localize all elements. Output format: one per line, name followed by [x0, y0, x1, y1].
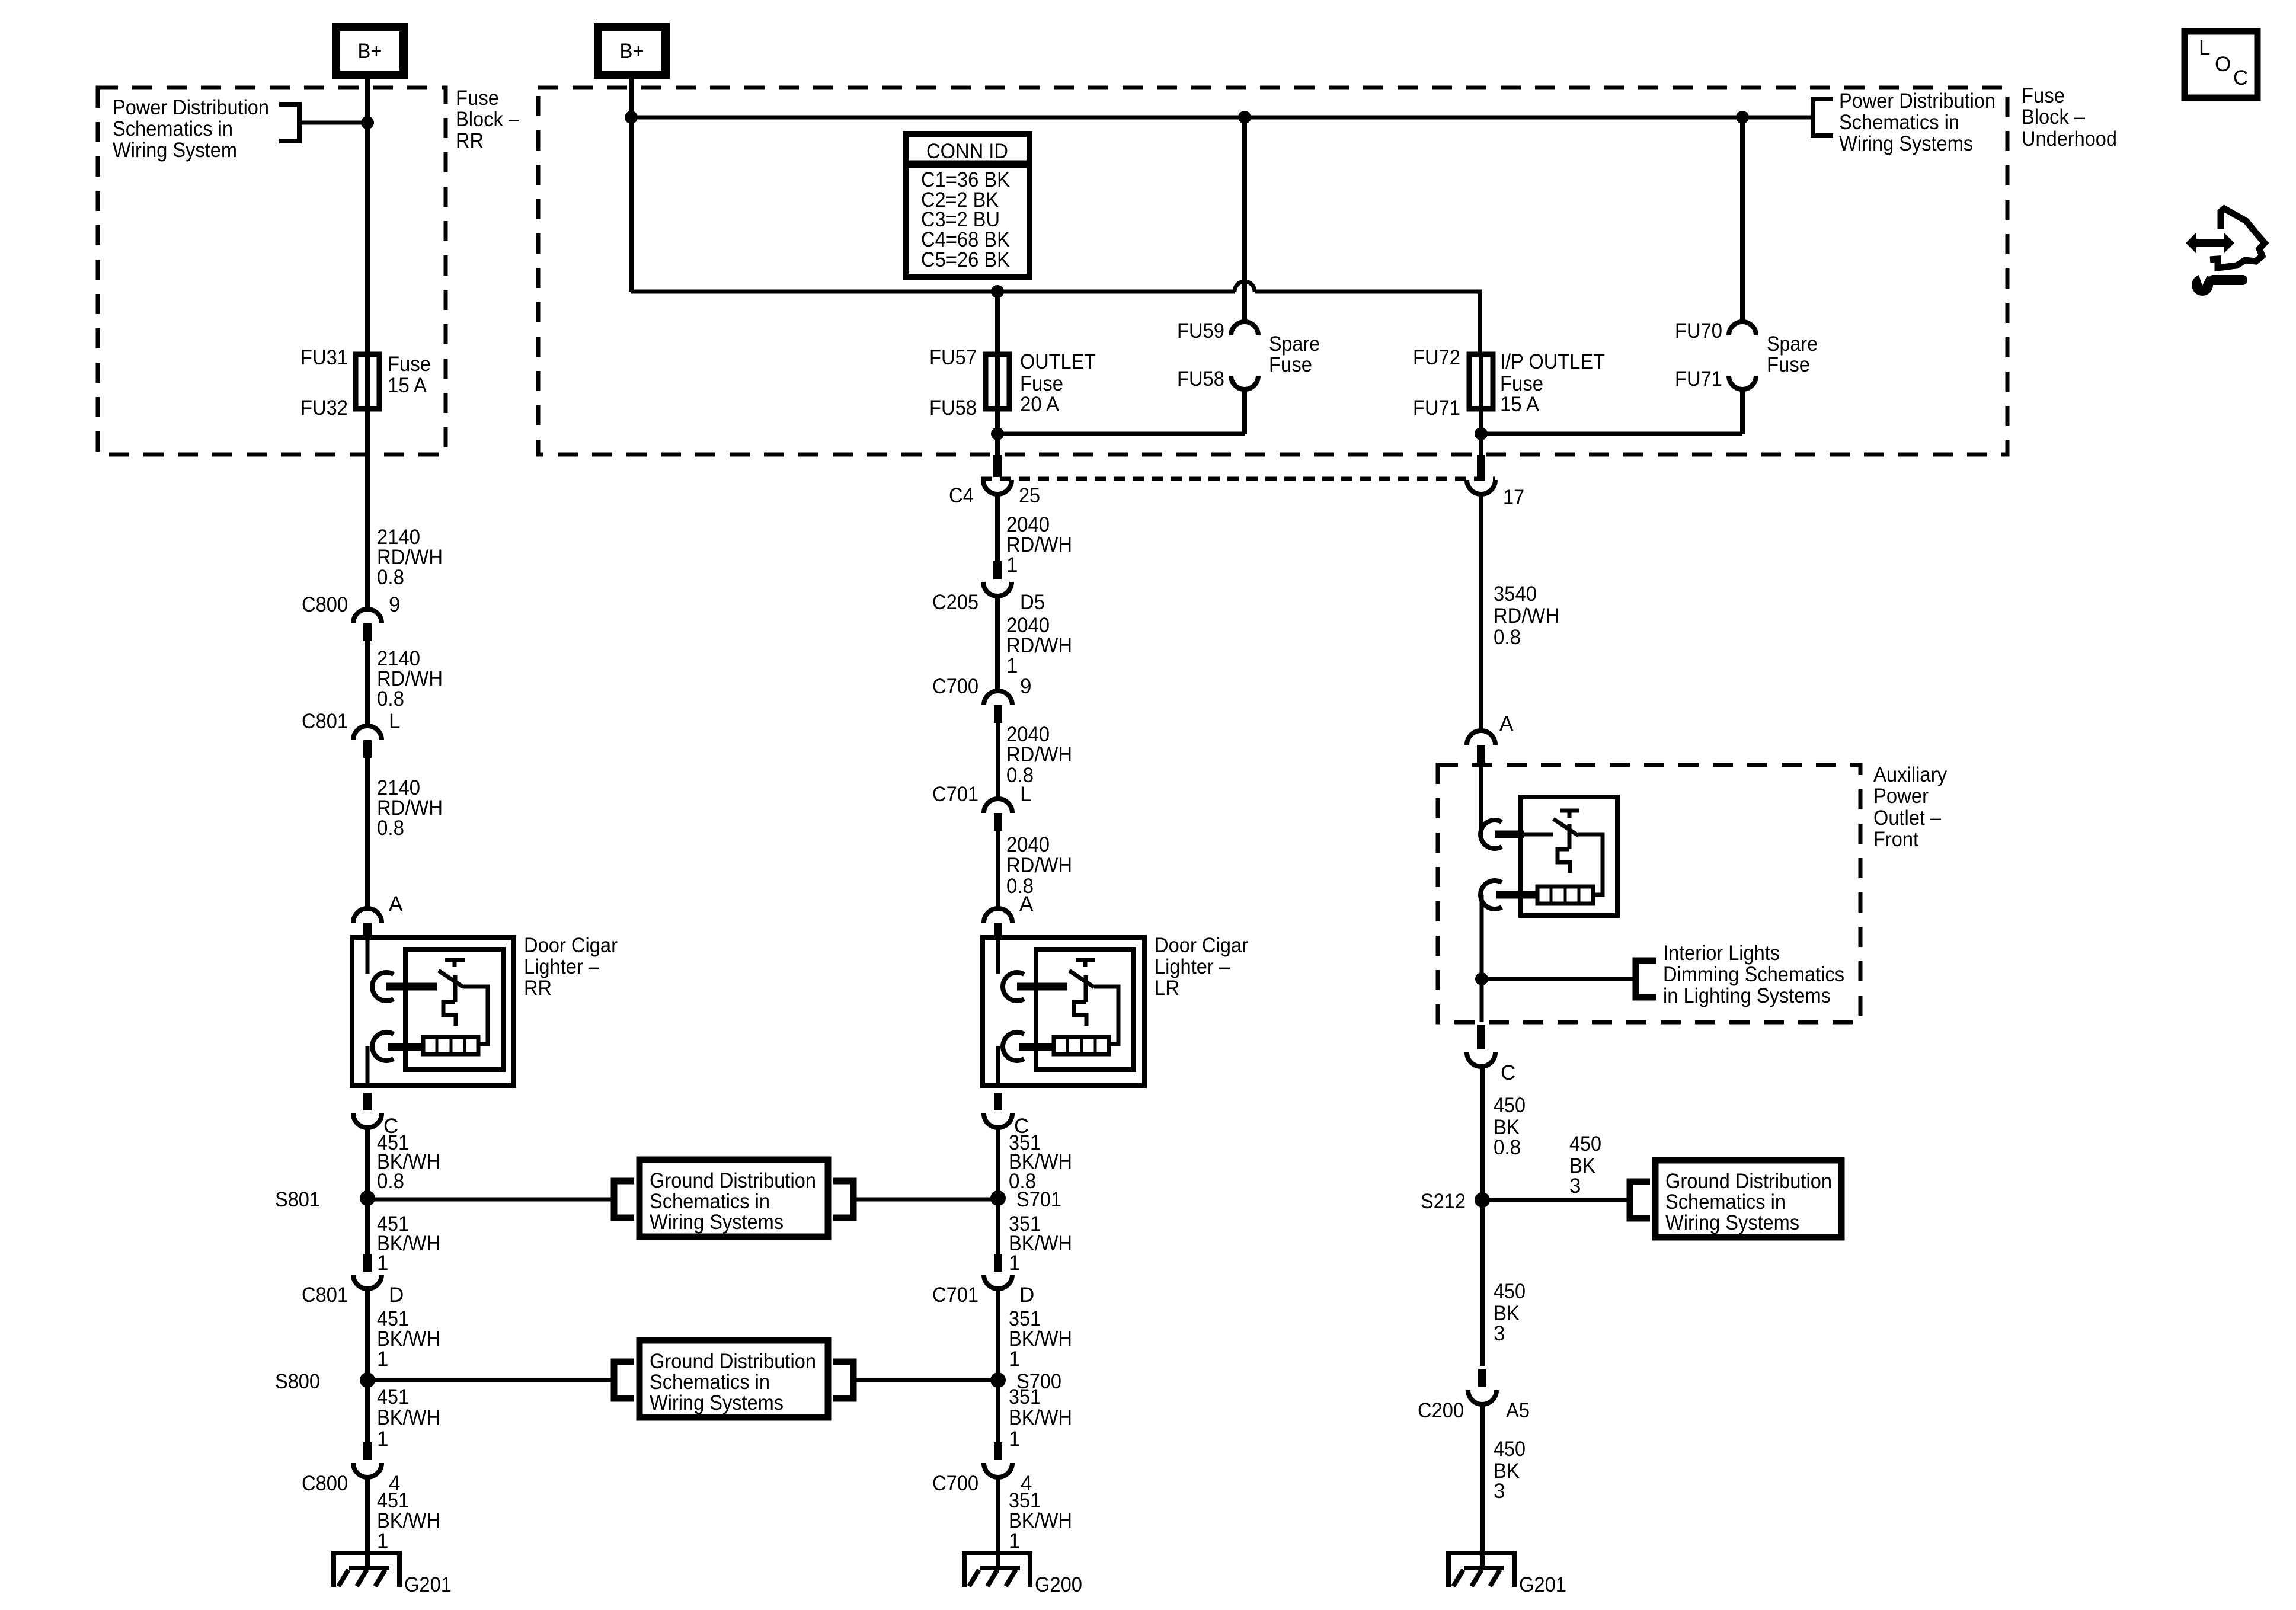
ground G200: [964, 1535, 1082, 1596]
ground G201 (left): [334, 1535, 452, 1596]
svg-text:3: 3: [1569, 1174, 1581, 1198]
wire label 351 BK/WH 1 (LR-1): [1009, 1212, 1072, 1275]
svg-text:9: 9: [1020, 675, 1031, 698]
svg-text:Wiring Systems: Wiring Systems: [1839, 132, 1973, 155]
fuse FU31/FU32 15A: [300, 346, 431, 420]
wire C701 D to S700: [996, 1289, 1000, 1380]
connector C701 pin D: [932, 1254, 1034, 1307]
wire S801 to C801 D: [365, 1198, 370, 1254]
svg-text:FU71: FU71: [1413, 396, 1460, 420]
svg-text:BK/WH: BK/WH: [377, 1406, 440, 1429]
junction node B+ feed RR: [361, 116, 374, 129]
svg-text:C801: C801: [302, 710, 348, 733]
wire label 351 BK/WH 0.8 (LR): [1009, 1131, 1072, 1193]
svg-text:Spare: Spare: [1767, 332, 1818, 356]
label Door Cigar Lighter - RR: [524, 934, 618, 1000]
svg-text:RD/WH: RD/WH: [1494, 604, 1559, 628]
splice S701: [990, 1188, 1061, 1211]
wire C to S701: [996, 1128, 1000, 1198]
svg-text:RR: RR: [524, 977, 552, 1000]
svg-text:BK/WH: BK/WH: [1009, 1406, 1072, 1429]
svg-text:L: L: [2199, 36, 2210, 59]
svg-text:Fuse: Fuse: [388, 353, 431, 376]
wire label 3540 RD/WH 0.8: [1494, 582, 1559, 649]
wire label 2040 RD/WH 0.8 (4): [1006, 833, 1072, 898]
wire S800 to ground box 2: [367, 1378, 614, 1382]
wire label 2040 RD/WH 1 (1): [1006, 513, 1072, 577]
svg-text:Ground Distribution: Ground Distribution: [1665, 1170, 1832, 1193]
wire bus to spare fuse FU59: [1242, 117, 1247, 323]
svg-text:C5=26 BK: C5=26 BK: [921, 248, 1010, 271]
svg-text:C: C: [1501, 1061, 1515, 1084]
svg-text:OUTLET: OUTLET: [1020, 350, 1096, 373]
wire C800 4 to ground G201: [365, 1477, 370, 1569]
svg-text:3540: 3540: [1494, 582, 1537, 606]
svg-text:Fuse: Fuse: [1500, 372, 1543, 395]
wire S212 to C200: [1480, 1200, 1485, 1366]
splice S212: [1421, 1190, 1490, 1213]
svg-text:3: 3: [1494, 1480, 1505, 1503]
junction node bus at FU70: [1736, 111, 1749, 124]
wire FU32 to C800: [365, 409, 370, 609]
svg-text:17: 17: [1503, 486, 1524, 509]
svg-text:L: L: [1020, 783, 1031, 806]
svg-text:Power Distribution: Power Distribution: [1839, 89, 1996, 113]
svg-text:Interior Lights: Interior Lights: [1663, 942, 1780, 965]
off-page ref bracket Power Distribution Underhood: [1813, 99, 1833, 136]
svg-text:1: 1: [1009, 1529, 1020, 1553]
svg-text:1: 1: [1006, 553, 1018, 577]
svg-text:B+: B+: [358, 40, 382, 63]
wire label 450 BK 3 (3): [1494, 1438, 1526, 1503]
wire label 450 BK 3 (branch): [1569, 1132, 1601, 1198]
spare fuse FU70/FU71: [1675, 319, 1818, 391]
wire S800 to C800 4: [365, 1380, 370, 1442]
svg-text:20 A: 20 A: [1020, 393, 1060, 416]
label Interior Lights Dimming Schematics in Lighting Systems: [1663, 942, 1844, 1007]
Ground Distribution box 2: [639, 1340, 828, 1417]
bracket left of ground box 2: [614, 1362, 634, 1398]
junction node above FU57: [991, 285, 1004, 298]
connector A door cigar lighter RR: [353, 892, 403, 937]
connector C door cigar lighter LR: [984, 1093, 1029, 1138]
svg-text:9: 9: [389, 593, 400, 616]
wire label 451 BK/WH 1 (RR-1): [377, 1212, 440, 1275]
svg-text:FU58: FU58: [1177, 367, 1224, 391]
connector C door cigar lighter RR: [353, 1093, 398, 1138]
svg-text:I/P OUTLET: I/P OUTLET: [1500, 350, 1605, 373]
svg-text:450: 450: [1569, 1132, 1601, 1156]
wire bus corner to FU72: [1478, 292, 1482, 354]
wire ground box 2 to S700: [853, 1378, 998, 1382]
bracket right of ground box 1: [833, 1181, 853, 1218]
svg-text:0.8: 0.8: [377, 817, 404, 840]
connector A aux power outlet: [1467, 712, 1514, 763]
label Auxiliary Power Outlet - Front: [1873, 763, 1947, 851]
svg-text:C: C: [2233, 66, 2248, 89]
wire C200 to ground G201 right: [1480, 1404, 1485, 1569]
svg-text:Fuse: Fuse: [2022, 84, 2065, 107]
connector C4 pin 25: [949, 455, 1040, 507]
svg-text:450: 450: [1494, 1438, 1526, 1461]
wire S701 to C701 D: [996, 1198, 1000, 1254]
svg-text:FU72: FU72: [1413, 346, 1460, 369]
wire 17 to A connector: [1479, 494, 1483, 731]
connector C700 pin 4: [932, 1442, 1032, 1495]
svg-text:D: D: [389, 1283, 404, 1307]
wire label 451 BK/WH 1 (RR-4): [377, 1489, 440, 1553]
wire label 2140 RD/WH 0.8 (1): [377, 526, 443, 589]
wire FU72 node to 17 connector: [1479, 434, 1483, 456]
connector C4 pin 17: [1467, 455, 1524, 509]
svg-text:Fuse: Fuse: [1767, 353, 1810, 376]
svg-text:351: 351: [1009, 1385, 1041, 1409]
svg-text:1: 1: [1009, 1251, 1020, 1275]
svg-text:2040: 2040: [1006, 833, 1050, 856]
svg-text:Ground Distribution: Ground Distribution: [650, 1350, 816, 1373]
svg-text:C200: C200: [1418, 1399, 1464, 1422]
svg-text:C205: C205: [932, 591, 978, 614]
Fuse Block - RR dashed box: [98, 88, 446, 454]
svg-text:1: 1: [1009, 1347, 1020, 1371]
wire label 2140 RD/WH 0.8 (3): [377, 776, 443, 840]
wire C to S801: [365, 1128, 370, 1198]
junction node below FU57: [991, 427, 1004, 440]
wire C801 to lighter RR: [365, 758, 370, 908]
svg-text:C4: C4: [949, 484, 974, 507]
B+ terminal (Fuse Block - Underhood): [598, 27, 666, 75]
svg-text:A: A: [1499, 712, 1514, 735]
wire FU71 to lower node: [1479, 409, 1483, 434]
svg-text:G200: G200: [1035, 1573, 1082, 1596]
svg-text:O: O: [2215, 53, 2231, 76]
wire C800 to C801: [365, 641, 370, 726]
wire FU58 to lower node: [995, 409, 1000, 434]
svg-text:C800: C800: [302, 593, 348, 616]
svg-text:Ground Distribution: Ground Distribution: [650, 1169, 816, 1192]
svg-text:Schematics in: Schematics in: [650, 1371, 770, 1394]
Fuse Block - Underhood dashed box: [538, 88, 2007, 454]
svg-text:Schematics in: Schematics in: [650, 1190, 770, 1213]
svg-text:Door Cigar: Door Cigar: [524, 934, 618, 957]
Auxiliary Power Outlet dashed box: [1438, 765, 1860, 1022]
svg-text:1: 1: [377, 1347, 388, 1371]
svg-text:D: D: [1019, 1283, 1034, 1307]
wire FU71 spare return: [1481, 389, 1742, 434]
svg-text:0.8: 0.8: [377, 1170, 404, 1193]
wire ground box 1 to S701: [853, 1198, 998, 1202]
bracket left of ground box 3: [1630, 1182, 1650, 1218]
wire C700 to C701: [996, 723, 1000, 799]
wire node to FU57: [995, 292, 1000, 354]
connector C701 pin L: [932, 783, 1031, 831]
svg-text:Block –: Block –: [456, 108, 519, 131]
svg-text:FU31: FU31: [300, 346, 348, 369]
svg-text:Auxiliary: Auxiliary: [1873, 763, 1947, 786]
svg-text:1: 1: [1009, 1427, 1020, 1451]
wire aux outlet to C connector: [1480, 895, 1484, 1022]
svg-text:LR: LR: [1155, 977, 1179, 1000]
svg-text:S701: S701: [1016, 1188, 1061, 1211]
svg-text:C701: C701: [932, 1283, 978, 1307]
svg-text:FU59: FU59: [1177, 319, 1224, 343]
svg-text:451: 451: [377, 1385, 409, 1409]
wire A to aux outlet: [1479, 763, 1483, 836]
wire B+ underhood down: [629, 75, 634, 292]
svg-text:A: A: [1019, 892, 1034, 916]
connector C801 pin D: [302, 1254, 404, 1307]
connector C200 pin A5: [1418, 1369, 1530, 1422]
wire C205 to C700: [995, 596, 1000, 691]
junction node bus at FU59: [1238, 111, 1251, 124]
svg-text:in Lighting Systems: in Lighting Systems: [1663, 984, 1831, 1007]
svg-text:FU57: FU57: [929, 346, 977, 369]
connector C800 pin 4: [302, 1442, 400, 1495]
connector C700 pin 9: [932, 675, 1031, 723]
Door Cigar Lighter - RR component: [352, 937, 514, 1086]
svg-text:Outlet –: Outlet –: [1873, 806, 1941, 830]
svg-text:Wiring System: Wiring System: [113, 139, 237, 162]
svg-text:RD/WH: RD/WH: [1006, 854, 1072, 877]
svg-text:C700: C700: [932, 1472, 978, 1495]
svg-text:S800: S800: [275, 1370, 320, 1393]
wire label 351 BK/WH 1 (LR-3): [1009, 1385, 1072, 1451]
svg-text:A5: A5: [1506, 1399, 1530, 1422]
wire S801 to ground box 1: [367, 1198, 614, 1202]
svg-text:0.8: 0.8: [377, 687, 404, 710]
svg-text:0.8: 0.8: [377, 566, 404, 589]
svg-text:Wiring Systems: Wiring Systems: [650, 1391, 784, 1414]
wire label 2040 RD/WH 1 (2): [1006, 614, 1072, 677]
B+ terminal (Fuse Block - RR): [336, 27, 404, 75]
splice S800: [275, 1370, 375, 1393]
svg-text:Lighter –: Lighter –: [524, 955, 599, 978]
connector C800 pin 9: [302, 593, 400, 641]
wire C701 to lighter LR: [996, 831, 1000, 908]
svg-text:0.8: 0.8: [1494, 1136, 1521, 1159]
svg-text:FU32: FU32: [300, 396, 348, 420]
svg-text:Power: Power: [1873, 785, 1929, 808]
svg-text:Lighter –: Lighter –: [1155, 955, 1230, 978]
splice S801: [275, 1188, 375, 1211]
svg-text:Underhood: Underhood: [2022, 127, 2117, 151]
svg-text:Fuse: Fuse: [1269, 353, 1312, 376]
wire label 450 BK 0.8: [1494, 1094, 1526, 1159]
svg-text:L: L: [389, 710, 400, 733]
svg-text:G201: G201: [404, 1573, 452, 1596]
wire C700 4 to ground G200: [996, 1477, 1000, 1569]
junction node bus top: [625, 111, 638, 124]
svg-text:Wiring Systems: Wiring Systems: [650, 1211, 784, 1234]
wire label 451 BK/WH 1 (RR-3): [377, 1385, 440, 1451]
svg-text:Schematics in: Schematics in: [1665, 1190, 1786, 1214]
wire C to S212: [1480, 1067, 1485, 1200]
component locator icon: [2186, 209, 2265, 296]
svg-text:FU71: FU71: [1675, 367, 1722, 391]
svg-text:1: 1: [377, 1251, 388, 1275]
svg-text:Fuse: Fuse: [456, 87, 499, 110]
svg-text:C701: C701: [932, 783, 978, 806]
wire label 351 BK/WH 1 (LR-2): [1009, 1307, 1072, 1371]
connector C801 pin L: [302, 710, 400, 758]
svg-text:Schematics in: Schematics in: [1839, 111, 1959, 134]
svg-text:G201: G201: [1519, 1573, 1566, 1596]
svg-text:Schematics in: Schematics in: [113, 117, 233, 140]
svg-text:Dimming Schematics: Dimming Schematics: [1663, 963, 1844, 986]
svg-text:15 A: 15 A: [1500, 393, 1540, 416]
off-page ref bracket Interior Lights: [1636, 961, 1656, 997]
label Power Distribution Schematics in Wiring System: [113, 96, 269, 162]
Ground Distribution box 3: [1655, 1160, 1841, 1237]
Door Cigar Lighter - LR component: [983, 937, 1144, 1086]
wire label 2040 RD/WH 0.8 (3): [1006, 723, 1072, 787]
connector C4 dotted separator: [981, 477, 1495, 481]
svg-text:Wiring Systems: Wiring Systems: [1665, 1211, 1799, 1234]
label Fuse Block - RR: [456, 87, 519, 152]
wire label 450 BK 3 (2): [1494, 1280, 1526, 1345]
wire FU58 spare return: [997, 389, 1245, 434]
wire label 351 BK/WH 1 (LR-4): [1009, 1489, 1072, 1553]
ground G201 (right): [1448, 1535, 1566, 1596]
svg-text:Door Cigar: Door Cigar: [1155, 934, 1248, 957]
spare fuse FU59/FU58: [1177, 319, 1320, 391]
connector C205 pin D5: [932, 561, 1045, 614]
label Fuse Block - Underhood: [2022, 84, 2117, 151]
svg-text:D5: D5: [1020, 591, 1045, 614]
off-page ref bracket Power Distribution RR: [279, 104, 299, 141]
svg-text:450: 450: [1494, 1094, 1526, 1117]
Ground Distribution box 1: [639, 1160, 828, 1237]
wire FU57 node to C4 connector: [995, 434, 1000, 456]
wire C4 to C205: [995, 494, 1000, 561]
splice S700: [990, 1370, 1061, 1393]
bracket left of ground box 1: [614, 1181, 634, 1218]
svg-text:1: 1: [1006, 654, 1018, 677]
junction node interior lights: [1475, 972, 1488, 985]
svg-text:Front: Front: [1873, 828, 1918, 851]
svg-text:1: 1: [377, 1529, 388, 1553]
top bus wire: [631, 116, 1813, 120]
svg-text:Power Distribution: Power Distribution: [113, 96, 269, 119]
svg-text:B+: B+: [620, 40, 644, 63]
wire label 451 BK/WH 0.8 (RR): [377, 1131, 440, 1193]
LOC reference box: [2185, 31, 2257, 98]
fuse FU72/FU71 I/P OUTLET 15A: [1413, 346, 1605, 420]
wire bus to spare fuse FU70: [1740, 117, 1745, 323]
svg-text:15 A: 15 A: [388, 374, 427, 397]
svg-text:RD/WH: RD/WH: [1006, 743, 1072, 766]
wire B+ to fuse FU31: [365, 75, 370, 354]
wire S700 to C700 4: [996, 1380, 1000, 1442]
svg-text:Fuse: Fuse: [1020, 372, 1063, 395]
svg-text:C801: C801: [302, 1283, 348, 1307]
svg-text:S801: S801: [275, 1188, 320, 1211]
svg-text:Spare: Spare: [1269, 332, 1320, 356]
wire S212 to ground box 3: [1482, 1198, 1630, 1202]
svg-text:3: 3: [1494, 1322, 1505, 1345]
svg-text:C700: C700: [932, 675, 978, 698]
label Power Distribution Schematics in Wiring Systems: [1839, 89, 1996, 155]
wire label 2140 RD/WH 0.8 (2): [377, 647, 443, 710]
wire to interior lights bracket: [1482, 977, 1636, 981]
lower bus wire with hop over FU59 feed: [631, 281, 1482, 292]
connector A door cigar lighter LR: [984, 892, 1034, 937]
bracket right of ground box 2: [833, 1362, 853, 1398]
svg-text:FU58: FU58: [929, 396, 977, 420]
connector C aux outlet: [1467, 1025, 1515, 1084]
svg-text:450: 450: [1494, 1280, 1526, 1303]
svg-text:A: A: [389, 892, 403, 916]
wire label 451 BK/WH 1 (RR-2): [377, 1307, 440, 1371]
svg-text:Block –: Block –: [2022, 105, 2085, 129]
Auxiliary Power Outlet - Front component: [1480, 797, 1617, 916]
svg-text:25: 25: [1019, 484, 1040, 507]
svg-text:S212: S212: [1421, 1190, 1466, 1213]
svg-text:C800: C800: [302, 1472, 348, 1495]
fuse FU57/FU58 OUTLET 20A: [929, 346, 1096, 420]
junction node below FU72: [1475, 427, 1488, 440]
svg-text:CONN ID: CONN ID: [926, 140, 1008, 163]
svg-text:FU70: FU70: [1675, 319, 1722, 343]
label Door Cigar Lighter - LR: [1155, 934, 1248, 1000]
svg-text:0.8: 0.8: [1494, 626, 1521, 649]
svg-text:1: 1: [377, 1427, 388, 1451]
svg-text:RR: RR: [456, 129, 484, 152]
CONN ID table: [906, 134, 1029, 277]
wire C801 D to S800: [365, 1289, 370, 1380]
wire bracket to B+ feed: [299, 121, 367, 125]
